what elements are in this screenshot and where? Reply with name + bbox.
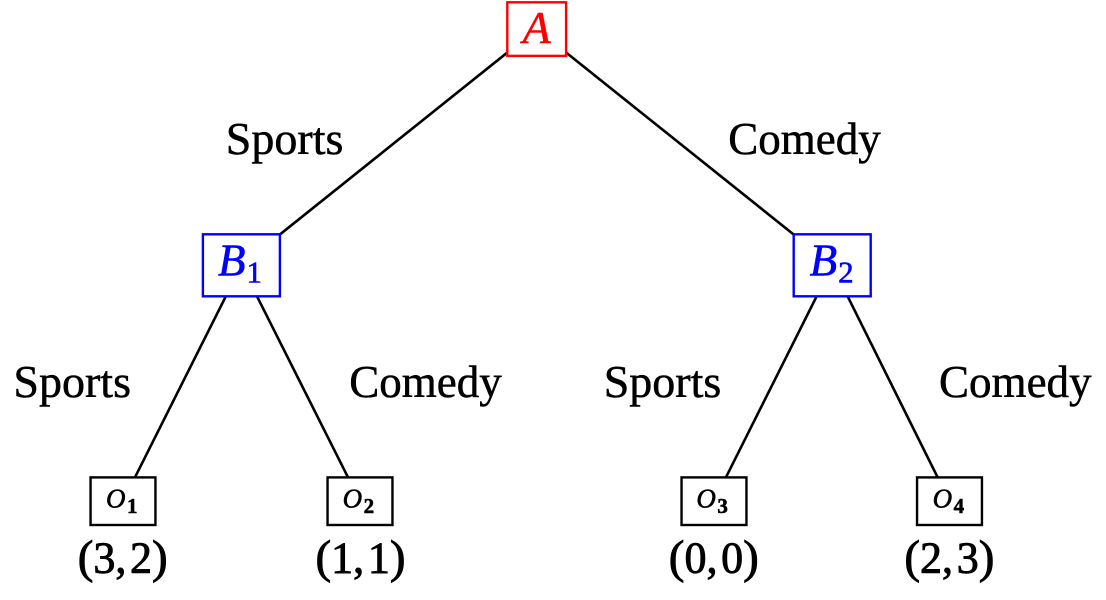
node B2 xyxy=(794,234,871,296)
svg-text:(3, 2): (3, 2) xyxy=(78,531,168,583)
svg-text:(1, 1): (1, 1) xyxy=(316,531,406,583)
node O3 xyxy=(682,477,747,525)
node A xyxy=(507,2,566,56)
svg-text:Sports: Sports xyxy=(226,113,344,164)
wire A-B2 xyxy=(537,29,833,265)
svg-text:Comedy: Comedy xyxy=(349,357,502,407)
wire A-B1 xyxy=(241,29,536,265)
label Sports (B2-O3 edge) xyxy=(604,356,722,407)
label Comedy (B2-O4 edge) xyxy=(939,357,1092,407)
svg-text:Sports: Sports xyxy=(604,356,722,407)
wire B1-O1 xyxy=(123,265,241,501)
payoff (1,1) under O2 xyxy=(316,531,406,583)
node B1 xyxy=(203,234,280,296)
svg-text:(0, 0): (0, 0) xyxy=(669,531,759,583)
svg-text:Comedy: Comedy xyxy=(728,114,881,164)
svg-text:A: A xyxy=(520,2,552,53)
label Sports (A-B1 edge) xyxy=(226,113,344,164)
svg-text:(2, 3): (2, 3) xyxy=(904,531,994,583)
node O2 xyxy=(328,477,393,525)
svg-text:Sports: Sports xyxy=(13,356,131,407)
payoff (3,2) under O1 xyxy=(78,531,168,583)
wire B2-O4 xyxy=(832,265,949,501)
node O4 xyxy=(917,477,982,525)
node O1 xyxy=(91,477,156,525)
label Sports (B1-O1 edge) xyxy=(13,356,131,407)
svg-text:Comedy: Comedy xyxy=(939,357,1092,407)
wire B2-O3 xyxy=(714,265,832,501)
label Comedy (B1-O2 edge) xyxy=(349,357,502,407)
wire B1-O2 xyxy=(241,265,360,501)
payoff (0,0) under O3 xyxy=(669,531,759,583)
label Comedy (A-B2 edge) xyxy=(728,114,881,164)
payoff (2,3) under O4 xyxy=(904,531,994,583)
